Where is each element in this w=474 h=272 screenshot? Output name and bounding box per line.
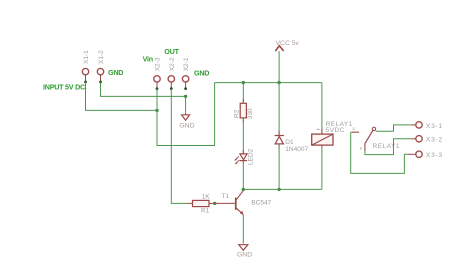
svg-text:X3-1: X3-1 [426,123,443,130]
svg-text:5VDC: 5VDC [326,127,345,134]
svg-text:GND: GND [108,68,123,77]
svg-text:R1: R1 [201,208,210,215]
svg-text:X3-2: X3-2 [426,137,443,144]
connector X3-3 [408,151,443,159]
resistor R1 [187,194,215,215]
svg-text:X1-2: X1-2 [98,50,105,64]
relay coil RELAY1 5VDC [312,83,353,190]
svg-text:X2-2: X2-2 [169,57,176,71]
svg-text:T1: T1 [222,193,230,200]
wire LED2 to collector node [242,165,244,190]
diode D1 1N4007 [275,83,309,190]
svg-text:Vin: Vin [143,55,153,64]
LED LED2 [234,148,254,165]
svg-text:S: S [352,126,355,131]
junction Vin column [155,109,158,112]
supply symbol VCC [275,40,299,83]
wire X2-2 to R1 [171,89,187,204]
transistor T1 BC547 [215,191,272,215]
ground at X2-1 [179,113,194,130]
wire X2-1 to ground [185,96,187,112]
connector X1-1 [82,50,90,84]
wire VCC rail [215,82,322,84]
ground at emitter [237,245,252,259]
wire collector rail [243,188,322,190]
wire contact NO to X3-1 [376,125,411,131]
svg-text:INPUT 5V DC: INPUT 5V DC [43,83,85,92]
wire X1-2 GND bus [101,82,186,96]
svg-text:R2: R2 [233,109,240,118]
svg-text:GND: GND [237,252,252,259]
junction collector at LED [242,188,245,191]
connector X2-1 [182,57,190,90]
wire contact NC stub [351,131,352,133]
svg-text:RELAY1: RELAY1 [373,143,400,150]
wire collector up [242,189,244,190]
wire R2 to LED2 [242,118,244,154]
connector X2-3 [154,57,162,90]
wire X2-3 to VCC rail [157,83,215,146]
junction base node [213,202,216,205]
svg-text:X2-1: X2-1 [183,57,190,71]
connector X2-2 [168,57,176,90]
svg-text:1K: 1K [202,194,211,201]
svg-text:X1-1: X1-1 [83,50,90,64]
svg-text:P: P [360,146,363,151]
connector X1-2 [97,50,105,84]
svg-text:X2-3: X2-3 [155,57,162,71]
wire contact NC to X3-3 [351,132,408,173]
svg-text:LED2: LED2 [247,148,254,165]
svg-text:GND: GND [179,122,194,129]
connector X3-1 [411,122,443,130]
svg-text:X3-3: X3-3 [426,152,443,159]
junction collector at D1 [277,188,280,191]
svg-text:330: 330 [247,108,254,119]
svg-text:BC547: BC547 [251,200,271,207]
svg-text:1N4007: 1N4007 [285,146,308,153]
junction VCC rail at R2 [242,81,245,84]
junction VCC rail at VCC [277,81,280,84]
svg-text:GND: GND [194,68,209,77]
wire contact pole to X3-2 [365,139,411,155]
junction GND bus at X2-1 [184,95,187,98]
wire emitter to ground [242,215,244,244]
relay contact RELAY1 [352,126,400,151]
wire VCC rail to R2 [242,83,244,104]
svg-text:OUT: OUT [164,47,179,56]
wire X1-1 to Vin column [86,82,158,110]
connector X3-2 [411,136,443,144]
resistor R2 330 [233,99,254,123]
